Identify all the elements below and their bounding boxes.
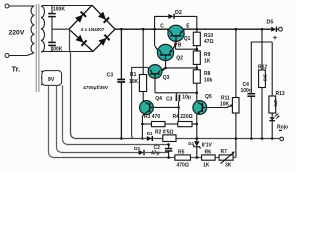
svg-text:C3: C3 — [107, 73, 114, 79]
svg-text:D2: D2 — [175, 10, 182, 16]
terminal + output — [279, 27, 283, 31]
svg-text:10k: 10k — [204, 77, 213, 83]
svg-text:R12: R12 — [258, 65, 267, 71]
wire Q3 base column — [154, 77, 156, 93]
svg-text:100K: 100K — [51, 47, 63, 53]
gray wire from 9V winding to rail C — [63, 85, 69, 144]
node R1 top — [142, 28, 145, 31]
bridge diode BR — [98, 35, 109, 46]
resistors column R10 R9 R8 — [196, 29, 198, 32]
bridge diode BL — [75, 35, 86, 46]
svg-text:R13: R13 — [276, 91, 285, 97]
resistor R10 — [193, 32, 200, 45]
transistor Q4 — [140, 101, 154, 116]
svg-text:470Ω: 470Ω — [177, 163, 189, 169]
wire R3-R4 junction — [165, 123, 178, 125]
svg-text:470: 470 — [273, 100, 278, 108]
svg-text:47μ: 47μ — [151, 151, 160, 157]
svg-text:8'1V: 8'1V — [202, 143, 213, 149]
terminal minus output — [280, 137, 284, 141]
svg-text:R9: R9 — [204, 52, 211, 58]
transformer T1 9V winding — [41, 71, 44, 85]
svg-text:B: B — [178, 42, 182, 48]
bridge rectifier 4x1N4007 — [69, 5, 115, 51]
bridge diode TL — [75, 12, 86, 23]
resistor R9 — [193, 51, 200, 64]
svg-text:Q5: Q5 — [205, 94, 212, 100]
capacitor 100K bottom — [51, 17, 53, 43]
transistor Q3 — [148, 65, 165, 79]
node D2 right — [196, 28, 199, 31]
rail C — [67, 144, 168, 146]
svg-text:10μ: 10μ — [182, 95, 191, 101]
svg-text:R8: R8 — [204, 71, 211, 77]
svg-text:1K: 1K — [203, 163, 210, 169]
node R12 branch top — [261, 28, 264, 31]
svg-text:100K: 100K — [53, 6, 65, 12]
svg-text:10K: 10K — [220, 102, 230, 108]
svg-text:Q1: Q1 — [184, 36, 191, 42]
capacitor 100K top — [51, 6, 53, 14]
wire caps midpoint to bridge left — [52, 28, 69, 30]
svg-text:1k5: 1k5 — [263, 74, 268, 82]
svg-text:4 x 1N4007: 4 x 1N4007 — [81, 27, 105, 32]
svg-text:R4 220Ω: R4 220Ω — [173, 114, 193, 120]
resistor R8 — [193, 70, 200, 83]
wire Q1 base to R10/R9 junction — [176, 44, 197, 49]
resistor R12 — [261, 42, 263, 70]
svg-text:47Ω: 47Ω — [204, 39, 214, 45]
junction dots rail B — [120, 137, 123, 140]
rail B negative — [76, 138, 280, 140]
rail D bottom — [54, 157, 220, 159]
wire primary bottom — [9, 53, 34, 56]
svg-text:R3 470: R3 470 — [144, 114, 160, 120]
terminal 220V top — [5, 4, 9, 8]
capacitor C3 4700uF — [120, 29, 122, 79]
svg-text:3K: 3K — [225, 163, 232, 169]
wire secondary bottom — [42, 51, 93, 53]
capacitor C4 — [247, 93, 255, 95]
svg-text:C3: C3 — [166, 96, 173, 102]
transformer T1 secondary winding — [41, 6, 45, 52]
wire secondary top — [42, 5, 92, 7]
resistor R13 — [271, 42, 273, 96]
wire primary top — [9, 5, 34, 7]
wire 10u cap riser down to R4 — [178, 101, 180, 122]
wire Q2 collector column — [154, 29, 156, 46]
svg-text:D5: D5 — [267, 19, 274, 25]
wire R4 right to Q5 emitter column — [192, 123, 197, 125]
resistor R1 — [142, 29, 144, 74]
wire Q4 emitter to R3 — [141, 116, 143, 139]
svg-text:R7: R7 — [221, 149, 228, 155]
svg-text:4700μf/35V: 4700μf/35V — [83, 85, 109, 91]
svg-text:220V: 220V — [9, 30, 25, 37]
svg-text:10K: 10K — [129, 79, 139, 85]
svg-text:100n: 100n — [241, 88, 252, 94]
transformer T1 primary winding — [31, 6, 34, 53]
wire D2 loop — [155, 16, 169, 29]
node C3 top — [120, 28, 123, 31]
svg-text:Q2: Q2 — [176, 56, 183, 62]
capacitor C3 10u — [175, 93, 177, 95]
bridge diode TR — [98, 12, 109, 23]
transistor Q2 — [155, 44, 175, 60]
LED Rojo — [271, 113, 273, 117]
svg-text:Q4: Q4 — [155, 96, 162, 102]
node B (Q1 base) — [174, 42, 177, 45]
transformer T1 core — [35, 4, 37, 92]
svg-text:9V: 9V — [48, 77, 55, 83]
transistor Q1 — [167, 25, 184, 43]
svg-text:+: + — [273, 33, 278, 42]
wire Q5 collector up to W1 — [196, 93, 198, 101]
wire W1 — [155, 92, 197, 94]
svg-text:R10: R10 — [204, 33, 213, 39]
wire Q5 base to R11 wiper — [205, 107, 227, 109]
branch R12 R13 C4 top — [262, 29, 272, 42]
node D2 left — [153, 28, 156, 31]
svg-text:C: C — [160, 24, 164, 30]
wire Q4 base to riser — [153, 106, 179, 108]
gray wire from 9V winding to D3 row — [57, 86, 63, 153]
wire Q3 collector to left column down to rail B — [132, 67, 148, 138]
label 9V bubble — [42, 71, 62, 86]
D3 row wire — [62, 152, 139, 154]
terminal 220V bottom — [5, 54, 9, 58]
diode D2 — [168, 14, 173, 19]
wire top positive rail — [115, 28, 271, 30]
svg-text:Rojo: Rojo — [277, 125, 288, 131]
svg-text:Tr.: Tr. — [12, 65, 21, 74]
potentiometer R11 — [235, 29, 237, 97]
gray wire from 9V winding to rail D — [49, 86, 55, 158]
svg-text:Q3: Q3 — [163, 75, 170, 81]
node R11 top — [235, 28, 238, 31]
svg-text:1K: 1K — [204, 58, 211, 64]
transistor Q5 — [193, 101, 207, 115]
wire Q5 emitter column down — [196, 114, 198, 138]
wire DC minus from bridge left down to rail B — [70, 29, 77, 138]
wire Q2 base to R9/R8 junction — [165, 61, 167, 68]
svg-text:D1: D1 — [147, 131, 153, 136]
svg-text:R1: R1 — [130, 72, 137, 78]
